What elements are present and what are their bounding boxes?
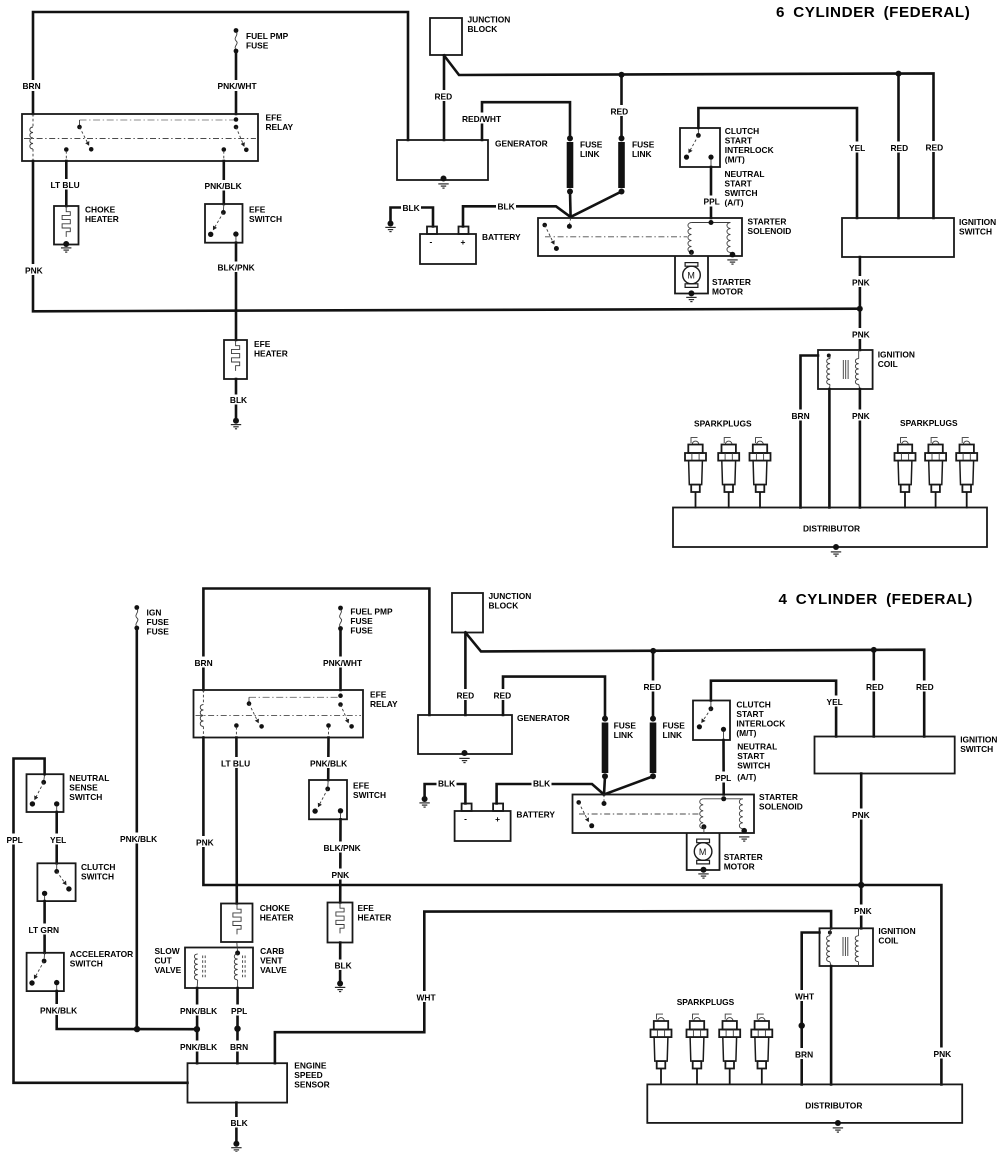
label BLK xyxy=(496,201,516,212)
svg-text:PNK: PNK xyxy=(852,411,870,421)
svg-text:IGNITION: IGNITION xyxy=(959,217,996,227)
svg-text:RED: RED xyxy=(891,143,909,153)
coil box IGNITION COIL xyxy=(818,350,873,389)
sparkplug 3 xyxy=(750,438,771,509)
svg-text:FUEL PMP: FUEL PMP xyxy=(350,607,393,617)
wire RED bus to fuse link 2 xyxy=(619,72,625,138)
svg-text:IGN: IGN xyxy=(147,608,162,618)
label PNK (lower) xyxy=(851,328,872,340)
distributor box xyxy=(647,1084,962,1123)
svg-text:YEL: YEL xyxy=(849,143,865,153)
label PNK/BLK (lower) xyxy=(179,1041,219,1053)
svg-text:SOLENOID: SOLENOID xyxy=(748,226,792,236)
label IGNITION SWITCH xyxy=(960,735,997,755)
svg-text:START: START xyxy=(737,751,765,761)
svg-text:PNK/BLK: PNK/BLK xyxy=(120,834,157,844)
svg-text:SWITCH: SWITCH xyxy=(249,214,282,224)
junction block box xyxy=(452,593,483,633)
wire WHT sensor to ignition coil xyxy=(275,911,831,1063)
label PNK xyxy=(24,264,45,276)
svg-text:IGNITION: IGNITION xyxy=(878,350,915,360)
label PNK/BLK (upper) xyxy=(179,1005,219,1017)
label PNK xyxy=(851,410,872,422)
heater box EFE HEATER xyxy=(328,903,353,943)
valve box SLOW CUT / CARB VENT VALVE xyxy=(185,943,253,989)
svg-text:MOTOR: MOTOR xyxy=(712,287,743,297)
relay internals: coil, contacts xyxy=(196,690,362,738)
svg-text:(A/T): (A/T) xyxy=(737,772,756,782)
svg-text:NEUTRAL: NEUTRAL xyxy=(725,169,765,179)
wire LT GRN clutch switch to accelerator switch xyxy=(43,901,46,953)
label BLK xyxy=(532,778,552,789)
heater box CHOKE HEATER xyxy=(221,904,253,943)
label GENERATOR xyxy=(517,713,570,723)
label BLK xyxy=(437,778,457,789)
svg-text:SENSE: SENSE xyxy=(69,783,98,793)
fuse link 1 xyxy=(602,716,609,780)
wire RED bus to fuse link 2 xyxy=(650,648,656,718)
svg-text:FUSE: FUSE xyxy=(614,720,637,730)
label PNK/BLK xyxy=(309,757,349,769)
svg-text:COIL: COIL xyxy=(878,359,898,369)
svg-text:BLK: BLK xyxy=(231,1118,248,1128)
wire BRN valve to sensor xyxy=(236,988,239,1063)
svg-text:START: START xyxy=(736,709,764,719)
solenoid internals xyxy=(542,218,735,257)
label RED xyxy=(433,90,454,102)
svg-text:BRN: BRN xyxy=(195,658,213,668)
svg-text:SOLENOID: SOLENOID xyxy=(759,802,803,812)
label PNK/BLK xyxy=(203,180,243,191)
label SLOW CUT VALVE xyxy=(155,946,182,975)
label PPL xyxy=(5,834,24,846)
svg-text:ACCELERATOR: ACCELERATOR xyxy=(70,949,133,959)
svg-text:MOTOR: MOTOR xyxy=(724,862,755,872)
svg-text:SLOW: SLOW xyxy=(155,946,180,956)
wire PNK/BLK valve to sensor xyxy=(196,988,199,1063)
sparkplug 1 xyxy=(685,438,706,509)
label PNK (right drop) xyxy=(932,1048,953,1060)
label DISTRIBUTOR xyxy=(803,524,860,534)
svg-text:PNK: PNK xyxy=(852,278,870,288)
title 4 CYLINDER (FEDERAL) xyxy=(779,591,973,608)
svg-text:PNK/BLK: PNK/BLK xyxy=(40,1006,77,1016)
label RED xyxy=(865,681,886,693)
sparkplug 2 xyxy=(687,1014,708,1085)
svg-text:RELAY: RELAY xyxy=(370,699,398,709)
label RED xyxy=(455,689,476,701)
svg-text:JUNCTION: JUNCTION xyxy=(489,591,532,601)
label PNK/BLK xyxy=(39,1004,79,1016)
label BRN xyxy=(229,1041,250,1053)
label YEL xyxy=(825,696,845,708)
svg-text:HEATER: HEATER xyxy=(254,349,288,359)
wire PNK coil to distributor xyxy=(859,389,862,508)
label BLK xyxy=(401,202,421,213)
wire BLK battery positive to starter solenoid xyxy=(463,206,571,226)
wire PNK ignition switch to ignition coil xyxy=(858,774,864,929)
svg-text:EFE: EFE xyxy=(370,690,387,700)
svg-text:RED: RED xyxy=(926,143,944,153)
svg-text:PNK/BLK: PNK/BLK xyxy=(180,1042,217,1052)
ground starter motor xyxy=(686,297,696,301)
wire LT BLU relay to choke heater xyxy=(65,161,68,206)
wire RED/WHT generator to fuse link 1 xyxy=(482,102,570,140)
wire PNK/BLK relay to EFE switch xyxy=(327,738,330,781)
svg-text:SWITCH: SWITCH xyxy=(960,744,993,754)
svg-text:PNK: PNK xyxy=(852,330,870,340)
label NEUTRAL START SWITCH (A/T) xyxy=(725,169,765,208)
label PNK/WHT xyxy=(322,657,364,669)
motor bracket and starter motor xyxy=(675,256,708,296)
ground distributor xyxy=(831,544,841,556)
svg-text:FUSE: FUSE xyxy=(580,140,603,150)
wire YEL interlock to ignition switch xyxy=(698,108,857,218)
svg-text:COIL: COIL xyxy=(878,936,898,946)
svg-text:FUSE: FUSE xyxy=(663,720,686,730)
wire fuse links to starter solenoid V junction xyxy=(570,192,622,218)
ground starter motor xyxy=(698,874,708,878)
sparkplug 5 xyxy=(925,438,946,509)
label BLK xyxy=(229,1117,248,1128)
svg-text:IGNITION: IGNITION xyxy=(878,926,915,936)
svg-text:NEUTRAL: NEUTRAL xyxy=(737,742,777,752)
interlock box CLUTCH START INTERLOCK xyxy=(680,128,720,167)
svg-text:EFE: EFE xyxy=(266,113,283,123)
switch box NEUTRAL SENSE SWITCH xyxy=(27,774,64,812)
svg-text:SWITCH: SWITCH xyxy=(69,792,102,802)
label STARTER SOLENOID xyxy=(759,792,803,812)
svg-text:BLOCK: BLOCK xyxy=(489,601,519,611)
svg-text:EFE: EFE xyxy=(353,781,370,791)
fuse FUEL PMP FUSE xyxy=(338,606,343,631)
label CHOKE HEATER xyxy=(85,205,119,225)
switch box EFE SWITCH xyxy=(309,780,347,819)
wire RED junction block to generator xyxy=(443,55,446,140)
svg-text:PPL: PPL xyxy=(704,197,720,207)
svg-text:VALVE: VALVE xyxy=(155,965,182,975)
wire PPL interlock to solenoid xyxy=(710,167,713,218)
svg-text:PNK/WHT: PNK/WHT xyxy=(323,658,363,668)
svg-text:LINK: LINK xyxy=(614,730,634,740)
svg-text:STARTER: STARTER xyxy=(724,852,763,862)
svg-text:EFE: EFE xyxy=(254,339,271,349)
ignition switch box xyxy=(815,737,955,774)
splice dot WHT/BRN xyxy=(799,1022,805,1028)
svg-text:EFE: EFE xyxy=(358,903,375,913)
heater box CHOKE HEATER xyxy=(54,206,79,247)
svg-text:STARTER: STARTER xyxy=(712,277,751,287)
wire LT BLU relay to choke heater xyxy=(235,738,238,904)
ground battery negative lead xyxy=(419,796,429,807)
wire RED generator to fuse link 1 xyxy=(503,677,605,718)
label WHT xyxy=(794,990,816,1002)
svg-text:WHT: WHT xyxy=(795,992,815,1002)
svg-text:INTERLOCK: INTERLOCK xyxy=(725,145,774,155)
wire PNK/BLK ign fuse down to accelerator junction xyxy=(136,628,139,1029)
label BLK xyxy=(333,960,352,971)
relay box EFE RELAY xyxy=(22,114,258,161)
label LT BLU xyxy=(220,757,253,769)
battery xyxy=(455,804,511,842)
svg-text:PPL: PPL xyxy=(715,773,731,783)
svg-text:PNK: PNK xyxy=(332,870,350,880)
svg-text:PNK/BLK: PNK/BLK xyxy=(180,1006,217,1016)
ground sensor xyxy=(231,1141,241,1152)
svg-text:CUT: CUT xyxy=(155,955,173,965)
svg-text:SWITCH: SWITCH xyxy=(737,761,770,771)
svg-text:LINK: LINK xyxy=(580,149,600,159)
fuse IGN FUSE xyxy=(134,605,139,630)
svg-text:BLK: BLK xyxy=(498,202,515,212)
wire BLK/PNK EFE switch down to EFE heater xyxy=(235,243,238,340)
svg-text:BATTERY: BATTERY xyxy=(516,810,555,820)
label STARTER MOTOR xyxy=(712,277,751,297)
svg-text:BLK: BLK xyxy=(438,779,455,789)
wire PPL bracket to sensor xyxy=(14,759,188,1083)
label PNK (lower) xyxy=(853,905,874,917)
solenoid internals xyxy=(576,795,747,834)
junction block box xyxy=(430,18,462,55)
label IGNITION COIL xyxy=(878,926,915,946)
wire BLK EFE heater to ground xyxy=(235,379,238,419)
label BRN xyxy=(790,410,811,422)
label EFE SWITCH xyxy=(353,781,386,801)
svg-text:FUSE: FUSE xyxy=(350,626,373,636)
label JUNCTION BLOCK xyxy=(468,15,511,35)
label CHOKE HEATER xyxy=(260,903,294,923)
label RED xyxy=(609,105,630,117)
label PNK xyxy=(330,869,351,881)
label PPL xyxy=(230,1005,249,1017)
svg-text:JUNCTION: JUNCTION xyxy=(468,15,511,25)
wire PNK/BLK relay to EFE switch xyxy=(223,161,226,204)
svg-text:RED: RED xyxy=(611,107,629,117)
svg-text:RED: RED xyxy=(457,691,475,701)
label PPL xyxy=(702,196,721,207)
sensor box ENGINE SPEED SENSOR xyxy=(188,1063,288,1102)
svg-text:BLK: BLK xyxy=(533,779,550,789)
svg-text:LINK: LINK xyxy=(632,149,652,159)
switch box ACCELERATOR SWITCH xyxy=(27,953,64,991)
label CLUTCH SWITCH xyxy=(81,862,115,882)
sparkplug 4 xyxy=(895,438,916,509)
svg-text:PNK: PNK xyxy=(934,1049,952,1059)
label RED xyxy=(642,681,663,693)
label BATTERY xyxy=(516,810,555,820)
label SPARKPLUGS xyxy=(677,997,735,1007)
label FUSE LINK xyxy=(663,720,686,740)
sparkplug 4 xyxy=(751,1014,772,1085)
wire BLK EFE heater to ground xyxy=(339,943,342,982)
heater box EFE HEATER xyxy=(224,340,247,379)
ground starter solenoid xyxy=(727,260,737,264)
label DISTRIBUTOR xyxy=(805,1101,862,1111)
splice dot BRN wire xyxy=(234,1026,240,1032)
svg-text:CLUTCH: CLUTCH xyxy=(736,700,770,710)
svg-text:HEATER: HEATER xyxy=(358,913,392,923)
svg-text:LT BLU: LT BLU xyxy=(51,180,80,190)
svg-text:DISTRIBUTOR: DISTRIBUTOR xyxy=(803,524,860,534)
ignition switch box xyxy=(842,218,954,257)
svg-text:RED/WHT: RED/WHT xyxy=(462,114,502,124)
svg-text:YEL: YEL xyxy=(50,835,66,845)
wire BLK battery positive to starter solenoid xyxy=(497,784,604,804)
label CLUTCH START INTERLOCK (M/T) xyxy=(725,126,774,165)
svg-text:IGNITION: IGNITION xyxy=(960,735,997,745)
fuse link 1 xyxy=(567,135,574,194)
wire YEL interlock to ignition switch xyxy=(711,681,836,737)
wire BRN feed: relay top, up, across, down to generator xyxy=(203,589,429,716)
svg-text:4 CYLINDER (FEDERAL): 4 CYLINDER (FEDERAL) xyxy=(779,591,973,608)
label IGNITION SWITCH xyxy=(959,217,996,237)
svg-text:STARTER: STARTER xyxy=(748,217,787,227)
svg-text:BRN: BRN xyxy=(23,81,41,91)
svg-text:GENERATOR: GENERATOR xyxy=(517,713,570,723)
svg-text:RED: RED xyxy=(644,682,662,692)
distributor box xyxy=(673,508,987,548)
svg-text:GENERATOR: GENERATOR xyxy=(495,139,548,149)
fuse FUEL PMP FUSE xyxy=(234,28,239,53)
svg-text:BLK: BLK xyxy=(335,961,352,971)
svg-text:RED: RED xyxy=(866,682,884,692)
svg-text:LT GRN: LT GRN xyxy=(29,925,60,935)
svg-text:PNK: PNK xyxy=(854,906,872,916)
label SPARKPLUGS (right bank) xyxy=(900,418,958,428)
wire main bus from junction block to ignition switch xyxy=(444,55,934,218)
svg-text:BLK: BLK xyxy=(403,203,420,213)
label FUSE LINK xyxy=(632,140,655,160)
label YEL xyxy=(49,834,69,846)
svg-text:HEATER: HEATER xyxy=(260,913,294,923)
ground choke heater xyxy=(61,248,71,252)
wire PNK/WHT fuse to relay xyxy=(235,52,238,114)
svg-text:(M/T): (M/T) xyxy=(725,155,745,165)
label LT GRN xyxy=(27,924,61,936)
svg-text:LT BLU: LT BLU xyxy=(221,759,250,769)
svg-text:RED: RED xyxy=(494,691,512,701)
svg-text:START: START xyxy=(725,179,753,189)
label PNK (upper) xyxy=(851,276,872,288)
svg-text:PNK/BLK: PNK/BLK xyxy=(310,759,347,769)
label FUEL PMP FUSE xyxy=(246,31,289,51)
wire coil secondary to distributor xyxy=(830,966,833,1084)
svg-text:BRN: BRN xyxy=(795,1050,813,1060)
wire coil secondary to distributor xyxy=(828,389,831,508)
svg-text:RED: RED xyxy=(916,682,934,692)
label RED/WHT xyxy=(461,113,503,125)
motor bracket and starter motor xyxy=(687,833,720,873)
ground starter solenoid xyxy=(739,837,749,841)
svg-text:VENT: VENT xyxy=(260,956,283,966)
label EFE SWITCH xyxy=(249,205,282,225)
wire PNK/BLK accelerator to valve junction xyxy=(57,991,197,1032)
svg-text:PNK: PNK xyxy=(25,266,43,276)
wire BLK ground to battery negative xyxy=(391,208,434,227)
wire BLK/PNK PNK EFE switch to EFE heater xyxy=(339,819,342,902)
svg-text:FUSE: FUSE xyxy=(246,41,269,51)
label WHT xyxy=(415,991,437,1003)
svg-text:NEUTRAL: NEUTRAL xyxy=(69,773,109,783)
label STARTER MOTOR xyxy=(724,852,763,872)
label BRN xyxy=(193,657,214,669)
wire RED bus to ignition switch xyxy=(871,647,877,737)
wire PNK ignition switch to ignition coil xyxy=(857,257,863,350)
label RED (right bus drop) xyxy=(915,681,936,693)
svg-text:PPL: PPL xyxy=(231,1006,247,1016)
wire main bus junction block to ignition switch xyxy=(465,633,924,737)
label SPARKPLUGS (left bank) xyxy=(694,419,752,429)
svg-text:START: START xyxy=(725,136,753,146)
wire RED bus to ignition switch xyxy=(896,71,902,218)
ground battery negative lead xyxy=(385,221,395,232)
generator box xyxy=(418,715,512,754)
solenoid box STARTER SOLENOID xyxy=(538,218,742,256)
svg-text:SWITCH: SWITCH xyxy=(353,790,386,800)
svg-text:PPL: PPL xyxy=(7,835,23,845)
label IGN FUSE FUSE xyxy=(147,608,170,637)
coil box IGNITION COIL xyxy=(820,928,874,966)
label PNK (left run) xyxy=(195,836,216,848)
label EFE HEATER xyxy=(254,339,288,359)
wire PNK long run: relay down and across to ignition junction xyxy=(33,161,860,311)
label ACCELERATOR SWITCH xyxy=(70,949,133,969)
wire BLK sensor to ground xyxy=(235,1103,238,1142)
fuse link 2 xyxy=(618,135,625,194)
switch box CLUTCH SWITCH xyxy=(37,863,75,901)
label JUNCTION BLOCK xyxy=(489,591,532,611)
relay internals: coil, contacts xyxy=(24,114,256,161)
label BRN xyxy=(21,80,42,91)
label RED xyxy=(492,689,513,701)
svg-text:SPARKPLUGS: SPARKPLUGS xyxy=(677,997,735,1007)
svg-text:BLK/PNK: BLK/PNK xyxy=(218,263,255,273)
svg-text:FUEL PMP: FUEL PMP xyxy=(246,31,289,41)
label FUSE LINK xyxy=(580,140,603,160)
svg-text:BATTERY: BATTERY xyxy=(482,232,521,242)
wire RED junction block to generator xyxy=(464,633,467,716)
svg-text:LINK: LINK xyxy=(663,730,683,740)
label GENERATOR xyxy=(495,139,548,149)
label CARB VENT VALVE xyxy=(260,946,287,975)
svg-text:SWITCH: SWITCH xyxy=(959,227,992,237)
svg-text:SPARKPLUGS: SPARKPLUGS xyxy=(900,418,958,428)
svg-text:6 CYLINDER (FEDERAL): 6 CYLINDER (FEDERAL) xyxy=(776,4,970,21)
label IGNITION COIL xyxy=(878,350,915,370)
wire PNK long run: relay-left down, across to ignition junction, down to distributor xyxy=(203,738,941,1085)
svg-text:PNK: PNK xyxy=(196,838,214,848)
ground distributor xyxy=(833,1120,843,1132)
svg-text:CLUTCH: CLUTCH xyxy=(81,862,115,872)
wire PPL interlock to solenoid xyxy=(722,740,725,795)
wire WHT/BRN coil to distributor xyxy=(802,933,820,1085)
label YEL xyxy=(848,142,868,154)
wire BRN coil to distributor xyxy=(801,356,819,508)
svg-text:BRN: BRN xyxy=(230,1042,248,1052)
svg-text:BLK: BLK xyxy=(230,395,247,405)
label ENGINE SPEED SENSOR xyxy=(294,1061,329,1090)
generator box xyxy=(397,140,488,180)
svg-text:CHOKE: CHOKE xyxy=(85,205,116,215)
svg-text:CHOKE: CHOKE xyxy=(260,903,291,913)
svg-text:YEL: YEL xyxy=(827,697,843,707)
label BLK/PNK xyxy=(322,842,362,854)
label CLUTCH START INTERLOCK (M/T) xyxy=(736,700,785,739)
ground EFE heater xyxy=(335,981,345,992)
wire fuse links to starter solenoid V junction xyxy=(604,776,653,794)
label RED xyxy=(889,142,910,154)
ground generator xyxy=(438,176,448,189)
